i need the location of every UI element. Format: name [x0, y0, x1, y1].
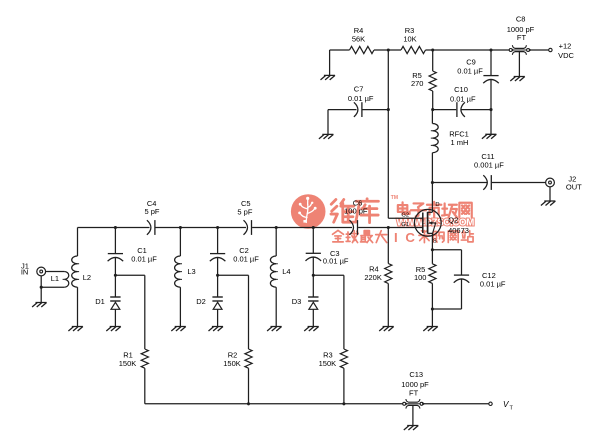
diode D3 varactor [308, 297, 318, 309]
label D3 [292, 297, 302, 306]
label J1 IN [21, 261, 29, 276]
wire C9 to middle junction [490, 80, 492, 110]
wire top rail left segment [330, 49, 350, 51]
ground below L3 [171, 327, 186, 332]
svg-text:L4: L4 [282, 267, 290, 276]
connector J2 OUT [546, 178, 555, 187]
svg-text:0.01 µF: 0.01 µF [131, 254, 157, 263]
label L3 [187, 267, 195, 276]
svg-text:L3: L3 [187, 267, 195, 276]
svg-text:0.01 µF: 0.01 µF [323, 257, 349, 266]
capacitor C2 0.01uF [210, 254, 226, 262]
resistor R5 100 [429, 264, 436, 284]
label D2 [196, 297, 206, 306]
wire D3 to ground [312, 309, 314, 326]
wire stub to R1 [115, 274, 144, 276]
svg-text:VDC: VDC [558, 51, 574, 60]
junction source bottom [431, 307, 434, 310]
wire R3 vertical top [343, 275, 345, 349]
label R2 150K [223, 351, 241, 369]
label +12 VDC [558, 42, 574, 60]
label C5 5pF [237, 199, 252, 217]
wire R4 220K to ground [387, 284, 389, 327]
inductor L3 [175, 256, 182, 287]
svg-text:0.01 µF: 0.01 µF [457, 66, 483, 75]
svg-text:10K: 10K [403, 35, 416, 44]
wire C11 to J2 [492, 182, 546, 184]
label C9 0.01uF [457, 58, 483, 76]
ground below C7 [319, 134, 333, 139]
svg-text:C9: C9 [466, 58, 476, 67]
svg-text:OUT: OUT [566, 182, 582, 191]
label C2 0.01uF [233, 246, 259, 263]
wire R3 to VT line [343, 368, 345, 404]
label Q2 40673 [448, 215, 469, 235]
svg-text:Q2: Q2 [448, 215, 458, 224]
svg-text:0.01 µF: 0.01 µF [450, 95, 476, 104]
wire stub to R2 [218, 274, 249, 276]
wire G2 vertical from top rail [387, 50, 389, 218]
label R1 150K [119, 351, 137, 369]
wire rail C4 to C5 [156, 227, 247, 229]
wire C13 to ground [412, 405, 414, 425]
wire C13 to VT terminal [422, 403, 489, 405]
wire J1 down to ground [40, 276, 42, 303]
svg-text:R4: R4 [369, 265, 379, 274]
svg-text:C10: C10 [454, 85, 468, 94]
svg-text:S: S [433, 238, 437, 244]
wire L1 bottom return [41, 286, 64, 288]
svg-text:220K: 220K [364, 273, 382, 282]
svg-text:C7: C7 [354, 85, 364, 94]
resistor R5 270 [429, 71, 436, 91]
junction drain node [431, 181, 434, 184]
svg-text:1 mH: 1 mH [451, 138, 469, 147]
ground below C8 [510, 77, 525, 82]
wire top rail down to C9 [490, 50, 492, 76]
capacitor C1 0.01uF [108, 254, 124, 262]
label L1 [51, 274, 59, 283]
ground below R4 220K [379, 327, 394, 332]
wire Q2 source junction [431, 248, 434, 251]
svg-text:FT: FT [409, 389, 419, 398]
wire junction to D3 [312, 275, 314, 297]
svg-text:56K: 56K [352, 35, 365, 44]
label J2 OUT [566, 174, 582, 191]
wire middle junction down to RFC1 [431, 110, 433, 124]
resistor R2 150K [245, 349, 252, 368]
ground below C9 [482, 134, 496, 139]
label G1 [401, 222, 409, 228]
wire junction to D1 [114, 275, 116, 297]
junction rail x388.3 [387, 226, 390, 229]
label R4 220K [364, 265, 382, 283]
capacitor C4 5pF [147, 220, 155, 235]
junction x388.3 middle [387, 108, 390, 111]
svg-text:270: 270 [411, 79, 424, 88]
svg-text:0.001 µF: 0.001 µF [474, 160, 504, 169]
terminal VT [489, 402, 492, 405]
terminal +12 VDC [549, 48, 552, 51]
diode D2 varactor [212, 297, 222, 309]
junction top rail x388 [387, 48, 390, 51]
wire junction to D2 [217, 275, 219, 297]
label C13 1000pF FT [401, 370, 429, 398]
svg-text:100 pF: 100 pF [344, 207, 368, 216]
inductor L4 [270, 256, 277, 287]
svg-text:0.01 µF: 0.01 µF [348, 94, 374, 103]
capacitor C8 1000pF FT [509, 45, 531, 55]
wire C12 bottom stub [432, 308, 461, 310]
label C10 0.01uF [450, 85, 476, 104]
transistor Q2 40673 dual-gate MOSFET [414, 209, 441, 249]
wire J1 to L1 [46, 271, 65, 273]
capacitor C6 100pF [350, 220, 358, 235]
wire R1 vertical top [144, 275, 146, 349]
wire rail to R4 220K [387, 228, 389, 264]
label L2 [83, 273, 91, 282]
wire L3 to ground [179, 287, 181, 326]
label C12 0.01uF [480, 271, 506, 288]
junction rail x276.2 [275, 226, 278, 229]
svg-text:C: C [405, 230, 415, 245]
capacitor C9 0.01uF [483, 76, 499, 84]
wire bottom junction to ground [431, 309, 433, 327]
wire J2 to ground [549, 187, 551, 201]
svg-text:C13: C13 [409, 370, 423, 379]
junction C2 D2 [216, 274, 219, 277]
junction J1 ground [40, 286, 43, 289]
resistor R3 10K (top) [401, 46, 426, 53]
wire C8 to +12 terminal [529, 49, 549, 51]
diode D1 varactor [110, 297, 120, 309]
inductor RFC1 1mH [431, 124, 438, 153]
svg-text:+12: +12 [559, 42, 572, 51]
label G2 [401, 213, 409, 219]
ground below J2 [541, 201, 556, 206]
junction C1 D1 [114, 274, 117, 277]
junction rail x217.6 [216, 226, 219, 229]
wire VT line R1 to C13 [145, 403, 404, 405]
svg-text:40673: 40673 [448, 226, 469, 235]
svg-text:D: D [435, 202, 439, 208]
label C11 0.001uF [474, 152, 504, 169]
label D1 [95, 297, 105, 306]
junction R2 VT line [247, 402, 250, 405]
svg-text:C5: C5 [241, 199, 251, 208]
resistor R1 150K [141, 349, 148, 368]
svg-text:FT: FT [517, 33, 527, 42]
label C8 1000pF FT [507, 15, 535, 43]
label L4 [282, 267, 290, 276]
wire top rail R3 to C8 [426, 49, 510, 51]
wire top rail between R4 and R3 [374, 49, 401, 51]
ground below L2 [68, 327, 83, 332]
wire C7 to G2 vertical [363, 109, 389, 111]
wire C3 to junction [312, 257, 314, 275]
svg-text:1000 pF: 1000 pF [401, 380, 429, 389]
junction x432.7 middle [431, 108, 434, 111]
wire D1 to ground [114, 309, 116, 326]
svg-text:C8: C8 [516, 15, 526, 24]
watermark dzsc.com logo and text [291, 194, 474, 245]
wire rail C6 to Q2 gate [358, 227, 423, 229]
svg-text:T: T [510, 406, 514, 412]
wire C1 to junction [114, 257, 116, 275]
wire C2 to junction [217, 257, 219, 275]
wire middle junction to C10 [433, 109, 457, 111]
wire R5 to middle junction [432, 91, 434, 110]
svg-text:D3: D3 [292, 297, 302, 306]
wire D2 to ground [217, 309, 219, 326]
junction rail x115.4 [114, 226, 117, 229]
label VT [503, 400, 514, 412]
svg-text:5 pF: 5 pF [144, 207, 159, 216]
inductor L2 [72, 256, 79, 287]
wire R1 to VT line [144, 368, 146, 404]
ground below D2 [209, 327, 224, 332]
wire source to R5 [431, 250, 433, 264]
label C1 0.01uF [131, 246, 157, 263]
label R4 56K [352, 26, 365, 44]
wire top rail left end drop [329, 50, 331, 75]
ground below J1 [32, 303, 46, 308]
wire R2 to VT line [248, 368, 250, 404]
resistor R4 56K (top) [350, 46, 375, 53]
wire rail to C3 [312, 228, 314, 254]
capacitor C11 0.001uF [483, 175, 491, 190]
label C3 0.01uF [323, 249, 349, 266]
label Q2 pin D [435, 202, 439, 208]
svg-text:5 pF: 5 pF [237, 208, 252, 217]
ground below R5 100 [423, 327, 437, 332]
wire rail to C1 [114, 228, 116, 254]
junction x491 middle [489, 108, 492, 111]
label Q2 pin S [433, 238, 437, 244]
connector J1 IN [37, 267, 46, 276]
ground top-left [321, 75, 336, 80]
resistor R3 150K [340, 349, 347, 368]
ground below L4 [267, 327, 282, 332]
svg-text:G2: G2 [401, 213, 409, 219]
wire C7 left vertical [327, 110, 329, 135]
svg-text:D2: D2 [196, 297, 206, 306]
svg-text:L2: L2 [83, 273, 91, 282]
wire rail corner to L2 [77, 228, 79, 257]
ground below D3 [304, 327, 319, 332]
capacitor C12 0.01uF [454, 275, 470, 283]
wire C7 left horizontal [328, 109, 357, 111]
capacitor C7 0.01uF [354, 102, 362, 117]
junction top rail x491 [489, 48, 492, 51]
label C7 0.01uF [348, 85, 374, 103]
resistor R4 220K [385, 264, 392, 284]
inductor L1 [63, 272, 69, 288]
wire R5 to bottom junction [431, 283, 433, 309]
svg-text:150K: 150K [223, 359, 241, 368]
wire G2 lead to Q2 [388, 217, 423, 219]
svg-text:IN: IN [21, 267, 29, 276]
wire source stub to C12 [432, 249, 461, 251]
junction C3 D3 [312, 274, 315, 277]
wire rail to L4 [275, 228, 277, 257]
label R5 100 [414, 265, 427, 282]
capacitor C5 5pF [244, 220, 252, 235]
wire L2 to ground [77, 287, 79, 326]
label RFC1 1mH [449, 129, 469, 147]
wire rail L2 to C4 [78, 227, 150, 229]
junction top rail x432.7 [431, 48, 434, 51]
wire C12 down [461, 250, 463, 275]
junction R3 VT line [342, 402, 345, 405]
label R3 10K [403, 26, 416, 44]
capacitor C3 0.01uF [306, 253, 322, 261]
wire C12 bottom [461, 279, 463, 309]
junction rail x313.3 [312, 226, 315, 229]
svg-text:D1: D1 [95, 297, 105, 306]
label R5 270 [411, 71, 424, 88]
ground below D1 [106, 327, 121, 332]
svg-text:150K: 150K [119, 359, 137, 368]
wire R2 vertical top [248, 275, 250, 349]
junction rail x180.4 [179, 226, 182, 229]
label C4 5pF [144, 199, 159, 216]
wire L4 to ground [275, 287, 277, 326]
wire rail to L3 [179, 228, 181, 257]
wire C8 center to ground [518, 52, 520, 77]
svg-text:150K: 150K [319, 359, 337, 368]
wire C9 junction to ground [490, 110, 492, 135]
wire drain junction to C11 [432, 182, 487, 184]
label C6 100pF [344, 198, 368, 215]
capacitor C13 1000pF FT [403, 399, 425, 409]
svg-text:I: I [394, 230, 398, 245]
label R3 150K [319, 351, 337, 369]
wire RFC1 to drain [431, 153, 433, 213]
ground below C13 [404, 426, 418, 431]
wire rail C5 to C6 [252, 227, 352, 229]
capacitor C10 0.01uF [457, 102, 465, 117]
svg-text:L1: L1 [51, 274, 59, 283]
svg-text:0.01 µF: 0.01 µF [233, 254, 259, 263]
wire rail to C2 [217, 228, 219, 254]
svg-text:TM: TM [391, 195, 398, 201]
svg-text:0.01 µF: 0.01 µF [480, 279, 506, 288]
wire stub to R3 150K [313, 274, 344, 276]
wire C10 to C9 bottom junction [461, 109, 491, 111]
svg-text:100: 100 [414, 273, 427, 282]
wire R3 junction down to R5 [432, 50, 434, 71]
